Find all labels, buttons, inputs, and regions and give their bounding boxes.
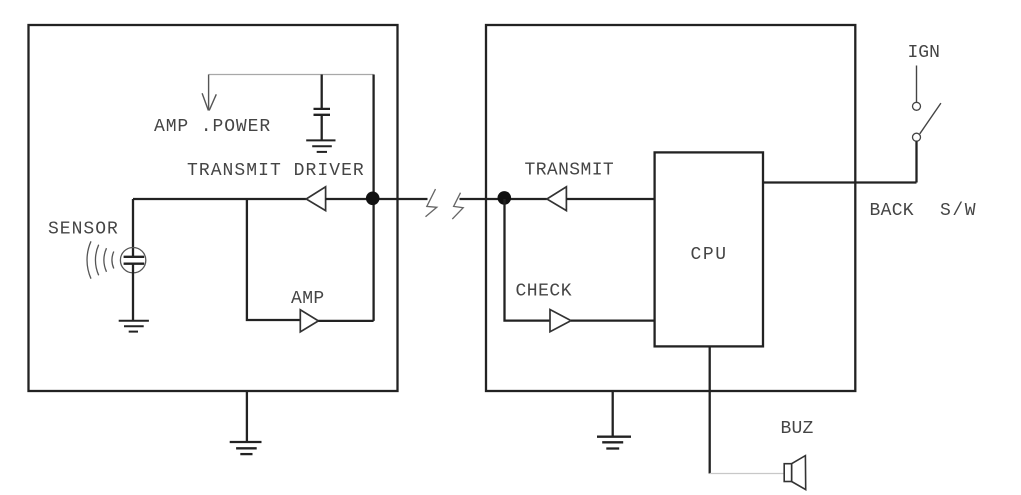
wire: node down and to check buffer xyxy=(505,199,551,321)
wire: sensor to ground xyxy=(132,264,134,321)
ground (left box) xyxy=(230,391,262,454)
break symbol (left lightning) xyxy=(426,189,437,217)
svg-text:AMP: AMP xyxy=(291,289,325,309)
right box (main unit enclosure) xyxy=(486,25,855,391)
svg-text:CHECK: CHECK xyxy=(516,282,573,302)
ground (right box) xyxy=(597,391,631,449)
wire: check buffer to CPU xyxy=(571,319,655,321)
sensor transducer (circle with plates) xyxy=(120,248,145,273)
wire: transmit buffer to CPU xyxy=(566,198,654,200)
node junction dot (right) xyxy=(498,191,512,205)
svg-text:AMP .POWER: AMP .POWER xyxy=(154,117,271,137)
wire: vertical feedback line from power rail down to amp output xyxy=(372,75,374,321)
wire: branch down from sensor line to amp input xyxy=(247,199,300,320)
amp power arrow xyxy=(202,75,216,111)
CPU U1 xyxy=(655,152,763,346)
node junction dot (left) xyxy=(366,192,380,206)
capacitor C (power filter) xyxy=(314,75,331,141)
svg-text:S/W: S/W xyxy=(940,201,977,221)
break symbol (right lightning) xyxy=(452,193,463,219)
wire: break to right unit node xyxy=(460,198,547,200)
wire: driver output to box edge / break xyxy=(326,198,428,200)
ground (capacitor) xyxy=(306,140,335,152)
svg-text:CPU: CPU xyxy=(691,245,728,265)
switch BACK S/W xyxy=(913,66,941,183)
wire: thin line to buzzer xyxy=(710,473,785,475)
ground (sensor) xyxy=(119,321,149,332)
transmit buffer (triangle pointing left) xyxy=(547,187,567,211)
wire: CPU to back switch xyxy=(763,181,917,183)
sound waves (arcs) xyxy=(87,241,114,278)
wire: sensor node to transmit driver tip xyxy=(133,198,306,200)
transmit driver buffer (triangle pointing left) xyxy=(306,187,325,211)
left box (sensor unit enclosure) xyxy=(29,25,398,391)
amp buffer (triangle pointing right) xyxy=(300,310,318,332)
wire: CPU down to buzzer line xyxy=(709,346,711,473)
svg-text:TRANSMIT: TRANSMIT xyxy=(525,161,615,181)
wire: node down to sensor xyxy=(132,199,134,257)
svg-text:TRANSMIT DRIVER: TRANSMIT DRIVER xyxy=(187,161,365,181)
svg-text:BUZ: BUZ xyxy=(781,419,814,439)
svg-text:IGN: IGN xyxy=(908,43,940,63)
label BACK S/W xyxy=(870,201,978,221)
wire: amp output to vertical feedback line xyxy=(318,320,373,322)
svg-text:BACK: BACK xyxy=(870,201,914,221)
check buffer (triangle pointing right) xyxy=(550,310,571,332)
svg-text:SENSOR: SENSOR xyxy=(48,220,119,240)
wire: power rail (thin) from arrow to right vertical xyxy=(209,74,374,76)
buzzer BUZ (speaker) xyxy=(784,456,806,490)
